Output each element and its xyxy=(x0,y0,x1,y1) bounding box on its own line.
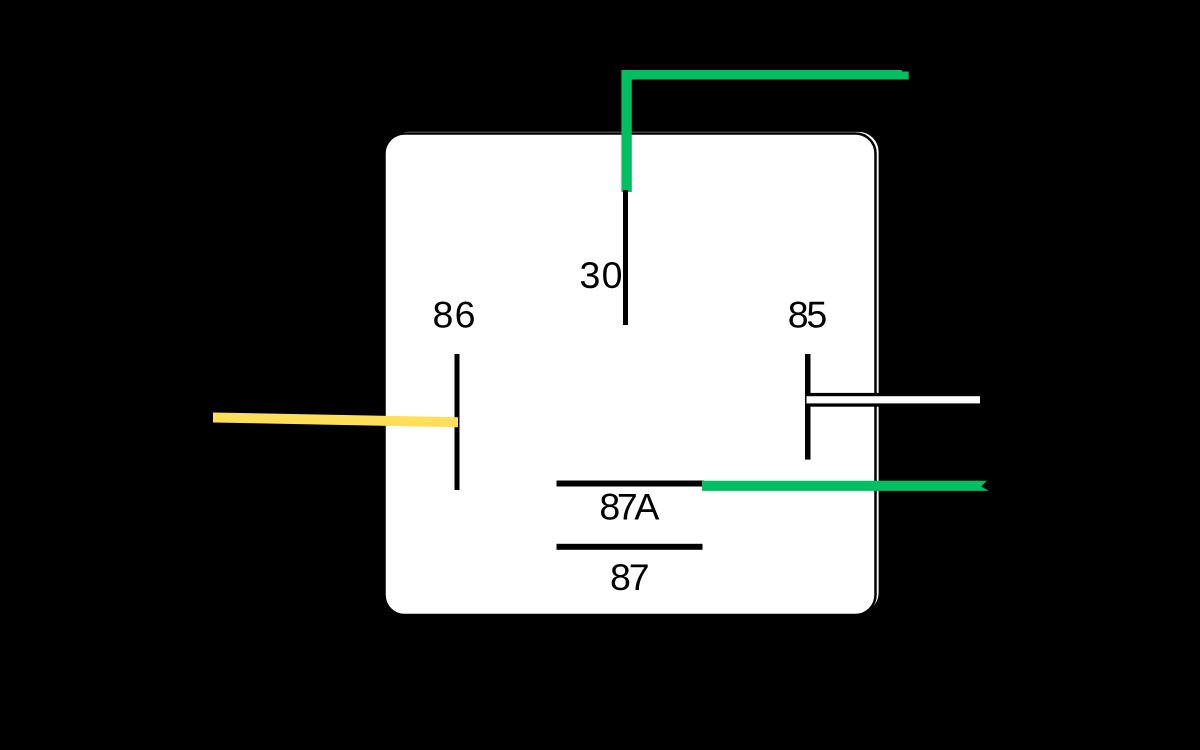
wire white (to pin 85) core xyxy=(807,396,981,403)
relay body white edge artifact xyxy=(388,132,879,613)
pin 87A contact line xyxy=(557,481,705,487)
pin 86 terminal xyxy=(455,354,460,490)
svg-text:85: 85 xyxy=(788,294,828,336)
svg-text:30: 30 xyxy=(580,254,623,296)
svg-text:86: 86 xyxy=(433,294,476,336)
svg-text:87: 87 xyxy=(610,556,650,598)
svg-text:87A: 87A xyxy=(599,485,659,527)
pin 85 terminal xyxy=(805,354,811,460)
relay body (rounded box) xyxy=(385,134,876,616)
pin 87 contact line xyxy=(557,544,703,550)
wire yellow (to pin 86) xyxy=(213,413,458,428)
wire green (to pin 30) xyxy=(621,70,908,192)
wire white (to pin 85) outline xyxy=(806,393,984,407)
pin 30 terminal xyxy=(623,190,628,325)
wire green (to pin 87A) xyxy=(702,481,989,491)
